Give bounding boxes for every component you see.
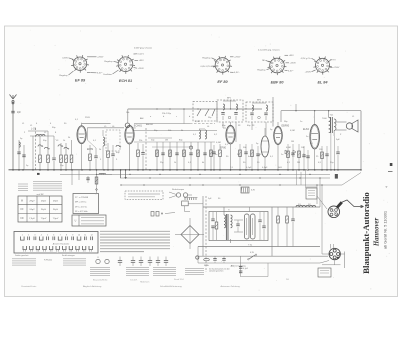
top feed dots: [156, 108, 157, 109]
speaker connector plug: [328, 206, 340, 218]
svg-text:AM: AM: [140, 117, 143, 120]
IF connection wires: [222, 122, 224, 128]
svg-text:10: 10: [78, 234, 80, 236]
detector diodes: [285, 150, 288, 154]
svg-text:Regelsp.: Regelsp.: [257, 70, 266, 72]
page sheet: [5, 26, 398, 297]
osc coil dashed box: [106, 130, 120, 151]
svg-text:+250V: +250V: [305, 72, 312, 74]
svg-text:M: M: [21, 200, 23, 202]
svg-text:6,3V~: 6,3V~: [288, 71, 294, 73]
svg-text:0,65V geg. Chassis: 0,65V geg. Chassis: [134, 48, 152, 50]
svg-text:Stand 1954: Stand 1954: [174, 278, 184, 281]
chassis bus line: [9, 169, 362, 171]
osc gang dashed line: [145, 128, 147, 170]
svg-text:5kΩ: 5kΩ: [278, 167, 282, 169]
tube socket ECH81 (top view): [118, 57, 133, 72]
psu enclosure: [209, 212, 268, 241]
svg-text:c: c: [176, 116, 177, 118]
svg-text:0,5M: 0,5M: [286, 147, 291, 149]
psu top rail: [203, 206, 320, 208]
svg-text:11: 11: [84, 234, 86, 236]
svg-text:EBF80: EBF80: [282, 125, 290, 128]
svg-text:0,1µF: 0,1µF: [262, 167, 268, 169]
svg-text:Si 6A: Si 6A: [204, 264, 209, 267]
IF2 internals: [252, 105, 254, 108]
tube socket EF89 (top view): [73, 57, 86, 70]
antenna symbol: [12, 103, 14, 170]
chassis dashed boundary: [205, 196, 207, 272]
psu transformer: [225, 214, 227, 240]
tube socket EBF80 (top view): [270, 58, 285, 73]
IF frequency box: [73, 194, 99, 214]
IF transformer 2 dashed box: [246, 102, 273, 122]
svg-text:+250V: +250V: [138, 68, 145, 70]
bus junction dots: [12, 169, 14, 171]
scan speckle: [134, 69, 135, 70]
scan softness group: [9, 30, 393, 291]
svg-text:0,3-1V: 0,3-1V: [138, 54, 145, 56]
wires to connector 1: [316, 185, 318, 204]
svg-text:0,1µF: 0,1µF: [243, 268, 249, 270]
svg-text:7,5µV: 7,5µV: [53, 218, 59, 220]
svg-text:G.m.b.H.: G.m.b.H.: [130, 280, 138, 282]
svg-text:Ersatzteil-Liste:: Ersatzteil-Liste:: [22, 285, 37, 288]
svg-text:2: 2: [28, 234, 29, 236]
svg-text:EF89: EF89: [87, 148, 94, 151]
svg-text:ECH81: ECH81: [134, 125, 143, 128]
svg-text:Oszillator: Oszillator: [103, 73, 112, 76]
output transformer: [330, 117, 332, 133]
V3 parts: [213, 145, 215, 170]
svg-text:ECH 81: ECH 81: [119, 79, 132, 83]
svg-text:24µV: 24µV: [41, 209, 47, 211]
svg-text:ZF = 472 kHz: ZF = 472 kHz: [75, 211, 88, 213]
tube V4 EBF80: [274, 127, 283, 145]
svg-text:7: 7: [60, 234, 61, 236]
svg-text:EL 84: EL 84: [317, 80, 328, 84]
svg-text:5: 5: [47, 234, 48, 236]
text block lower left: [12, 258, 36, 260]
svg-text:Regelsp.: Regelsp.: [202, 58, 211, 60]
psu input caps: [211, 218, 214, 220]
tube socket EF80 (top view): [215, 58, 230, 73]
psu switch: [249, 255, 255, 259]
ratio detector coil: [261, 136, 269, 157]
psu right lower parts: [239, 266, 242, 268]
B+ top wire: [128, 108, 262, 110]
svg-text:MF = 472 kc: MF = 472 kc: [75, 202, 87, 204]
heater bus line: [120, 177, 330, 179]
svg-text:W4: W4: [286, 279, 289, 281]
svg-text:29µV: 29µV: [29, 200, 35, 202]
psu left vertical: [202, 196, 204, 257]
svg-text:EF80: EF80: [220, 147, 227, 150]
AVC line right end: [342, 173, 361, 186]
V1 cathode parts: [89, 154, 92, 161]
tube V3 EF80: [226, 126, 235, 144]
loudspeaker: [346, 123, 352, 129]
top feed verticals: [183, 109, 185, 124]
right small parts box: [306, 188, 317, 199]
svg-text:Antennen-Zuleitung:: Antennen-Zuleitung:: [221, 285, 241, 288]
svg-text:+250V: +250V: [234, 57, 241, 59]
tuner verticals: [32, 136, 34, 170]
tube V1 EF89: [77, 126, 86, 144]
psu bottom caps: [222, 258, 225, 260]
tube socket EL84 (top view): [316, 58, 330, 72]
svg-text:8: 8: [66, 234, 67, 236]
svg-text:2M: 2M: [297, 162, 300, 164]
svg-text:Antennenzuleitung: Antennenzuleitung: [231, 265, 246, 268]
svg-text:ab Gerät Nr. 5 110301: ab Gerät Nr. 5 110301: [383, 211, 388, 249]
svg-text:29µV: 29µV: [41, 200, 47, 202]
svg-text:24µV: 24µV: [29, 209, 35, 211]
svg-text:Drähte gesehen: Drähte gesehen: [15, 254, 28, 257]
sensitivity table: [18, 196, 62, 222]
psu chokes: [296, 205, 299, 207]
svg-text:24µV: 24µV: [53, 209, 59, 211]
svg-text:Blaupunkt-Autoradio: Blaupunkt-Autoradio: [361, 192, 371, 274]
tuning coil line: [30, 135, 54, 137]
wires to connector 2: [321, 185, 323, 254]
svg-text:AM/FM: AM/FM: [146, 123, 153, 126]
margin dash: [388, 171, 393, 173]
right edge wire: [360, 111, 362, 170]
psu lamp: [196, 256, 199, 259]
svg-text:und 3W: und 3W: [37, 194, 44, 196]
waveband switch arcs: [38, 145, 41, 147]
dial lamp circuit: [176, 193, 180, 197]
svg-text:250V: 250V: [85, 117, 90, 119]
pictogram captions: [90, 267, 110, 269]
tuning gang dashed line: [34, 128, 36, 170]
output stage top wire: [281, 110, 361, 112]
svg-text:0,65V: 0,65V: [62, 58, 68, 60]
svg-text:Farb-Leitungen: Farb-Leitungen: [62, 254, 75, 257]
svg-text:EF 80: EF 80: [217, 80, 228, 84]
svg-text:0,5M: 0,5M: [290, 130, 295, 132]
svg-text:+255V: +255V: [333, 67, 340, 69]
terminal strip box: [14, 232, 98, 254]
svg-text:2pF: 2pF: [17, 112, 22, 114]
tuner components: [39, 155, 42, 163]
bus tick mark: [37, 173, 40, 175]
svg-text:1M: 1M: [165, 140, 168, 142]
svg-text:0,1µF: 0,1µF: [246, 167, 252, 169]
svg-text:0,1-0,65V geg. Chassis: 0,1-0,65V geg. Chassis: [258, 50, 280, 52]
svg-text:Lötseite gesehen: Lötseite gesehen: [209, 270, 223, 273]
svg-text:12: 12: [91, 234, 93, 236]
vibrator cans: [245, 214, 250, 239]
psu fuse: [204, 258, 210, 260]
bridge rectifier: [181, 226, 199, 244]
oscillator components: [156, 142, 158, 170]
pictogram row: [96, 259, 100, 263]
svg-text:EF 89: EF 89: [75, 79, 86, 83]
svg-text:Schaltbild-Erläuterung:: Schaltbild-Erläuterung:: [160, 285, 183, 288]
V5 parts: [321, 152, 324, 159]
power connector plug: [329, 248, 340, 259]
IF transformer 1 dashed box: [217, 100, 243, 122]
svg-text:Skalenlampen: Skalenlampen: [172, 189, 184, 191]
psu right of enclosure: [271, 207, 273, 257]
hatched plug 6.3V: [241, 187, 249, 193]
margin dot: [390, 163, 393, 166]
svg-text:Regelsp.: Regelsp.: [104, 61, 113, 63]
svg-text:0,65-1,2V: 0,65-1,2V: [201, 66, 211, 68]
svg-text:KD: KD: [20, 218, 24, 220]
svg-text:Blaupunkt-Werke: Blaupunkt-Werke: [93, 279, 107, 282]
mid horizontal wires: [134, 123, 190, 125]
svg-text:EBF 80: EBF 80: [271, 81, 285, 85]
bandfilter coils: [103, 137, 105, 140]
note lines col2: [33, 181, 62, 183]
small relay box: [182, 201, 189, 206]
osc coils: [199, 130, 201, 133]
pin comb connector: [184, 197, 198, 199]
svg-text:7,5µV: 7,5µV: [41, 218, 47, 220]
oscillator dashed box: [193, 102, 217, 122]
tube V2 ECH81: [125, 126, 134, 144]
svg-text:Regelsp.: Regelsp.: [59, 75, 68, 77]
connector 1 arrow: [342, 200, 364, 208]
V4 parts: [287, 151, 290, 158]
V2 grid parts: [137, 150, 140, 157]
IF1 internals: [223, 104, 225, 107]
svg-text:+85V: +85V: [139, 60, 145, 62]
note lines col1: [18, 183, 28, 185]
svg-text:L-Ü2: L-Ü2: [31, 128, 37, 131]
svg-text:4: 4: [41, 234, 42, 236]
rail junction dots: [96, 174, 97, 175]
svg-text:27° = 472/468: 27° = 472/468: [75, 197, 89, 199]
svg-text:Tr: Tr: [228, 210, 230, 212]
V1 anode wire: [82, 122, 111, 124]
svg-text:29µV: 29µV: [53, 200, 59, 202]
transformer mid wires: [234, 219, 243, 221]
svg-text:+85V: +85V: [289, 55, 295, 57]
svg-text:9: 9: [72, 234, 73, 236]
svg-text:+250V: +250V: [290, 63, 297, 65]
dark cap below bus: [335, 174, 338, 179]
svg-text:ZF1 = 472 kc: ZF1 = 472 kc: [75, 206, 87, 208]
svg-text:1: 1: [22, 234, 23, 236]
svg-text:3: 3: [34, 234, 35, 236]
tube V5 EL84: [310, 125, 320, 149]
psu bottom rail 3: [198, 255, 328, 257]
svg-text:7,5µV: 7,5µV: [29, 218, 35, 220]
psu right caps: [258, 219, 261, 221]
svg-text:0,3M: 0,3M: [216, 142, 221, 144]
svg-text:1M: 1M: [291, 141, 294, 143]
svg-text:0,5M: 0,5M: [195, 121, 200, 123]
svg-text:Ansicht: Rückseite: Ansicht: Rückseite: [53, 242, 70, 245]
drop wires: [71, 170, 73, 185]
small parts left of bridge: [151, 212, 154, 217]
note paragraph block: [100, 230, 170, 232]
svg-text:Hannover: Hannover: [374, 217, 381, 247]
dashed note box: [125, 191, 163, 200]
transformer drops: [330, 133, 332, 170]
text block lower mid: [63, 258, 86, 260]
svg-text:+250V: +250V: [97, 57, 104, 59]
svg-text:Hildesheim: Hildesheim: [140, 282, 150, 284]
svg-text:25k 120p: 25k 120p: [162, 113, 172, 115]
svg-text:Abgleich-Anleitung:: Abgleich-Anleitung:: [83, 285, 102, 288]
small box near connector: [318, 268, 331, 277]
AVC line: [121, 184, 342, 186]
svg-text:6,3V~: 6,3V~: [234, 72, 240, 74]
svg-text:4,9V g.Ch.: 4,9V g.Ch.: [301, 58, 312, 60]
svg-text:P-Platine: P-Platine: [44, 259, 53, 262]
alignment twin box: [72, 215, 106, 226]
svg-text:6: 6: [53, 234, 54, 236]
svg-text:EL84: EL84: [303, 128, 309, 131]
secondary bus line: [60, 173, 330, 175]
psu bottom rails: [198, 246, 320, 248]
